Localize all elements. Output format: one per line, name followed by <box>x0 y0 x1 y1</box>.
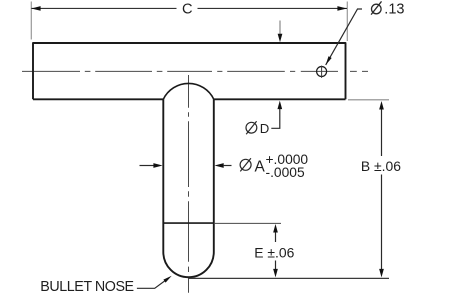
dimension D: lower arrow shaft and tail <box>271 104 280 128</box>
dimension A: left arrow shaft <box>140 165 155 167</box>
dimension A: right arrowhead <box>215 163 224 168</box>
dimension A: right arrow shaft <box>223 165 232 167</box>
dimension D: diameter symbol <box>246 121 257 134</box>
bottom extension line (nose tip reference) <box>189 277 390 279</box>
dimension E: top extension line <box>214 222 281 224</box>
svg-text:B ±.06: B ±.06 <box>361 158 401 174</box>
svg-text:D: D <box>260 121 270 136</box>
svg-text:C: C <box>182 2 193 18</box>
leader for hole callout <box>326 9 362 65</box>
bullet nose tangent line <box>163 222 214 224</box>
svg-text:E ±.06: E ±.06 <box>254 245 294 261</box>
head bottom edge right segment <box>214 98 346 100</box>
dimension B: lower line segment with down arrow <box>381 175 383 272</box>
svg-text:.13: .13 <box>384 2 404 18</box>
stem outline with bullet nose arc <box>163 99 214 277</box>
dimension E: upper line segment with up arrow <box>275 230 277 242</box>
bullet nose leader arrowhead <box>163 276 171 283</box>
dimension A: left arrowhead <box>153 163 162 168</box>
dimension D: lower arrowhead <box>277 101 282 110</box>
dimension C: right extension line <box>346 2 348 42</box>
dimension C: line right segment with arrow <box>198 7 348 9</box>
dimension D: upper arrow shaft <box>279 21 281 37</box>
bullet nose leader <box>137 278 169 288</box>
head cylinder outline (top, left, right edges) <box>33 43 346 99</box>
dimension C: left extension line <box>30 2 32 40</box>
svg-text:A: A <box>255 159 266 176</box>
svg-text:-.0005: -.0005 <box>266 165 305 180</box>
head bottom edge left segment <box>33 98 163 100</box>
vertical centerline of stem <box>188 75 190 293</box>
dimension B: upper line segment with up arrow <box>381 107 383 156</box>
dimension C: line left segment with arrow <box>31 7 176 9</box>
hole circle (.13 dia) <box>317 67 327 77</box>
dimension D: upper arrowhead <box>278 34 283 43</box>
dimension B: top extension line <box>348 99 389 101</box>
stem-to-head blend dome <box>163 83 214 99</box>
horizontal centerline of head cylinder <box>22 70 368 72</box>
hole callout diameter symbol <box>371 1 381 14</box>
dimension A: diameter symbol <box>240 158 251 171</box>
dimension E: lower line segment with down arrow <box>275 261 277 272</box>
hole vertical center tick <box>321 66 323 78</box>
svg-text:BULLET NOSE: BULLET NOSE <box>40 279 133 295</box>
